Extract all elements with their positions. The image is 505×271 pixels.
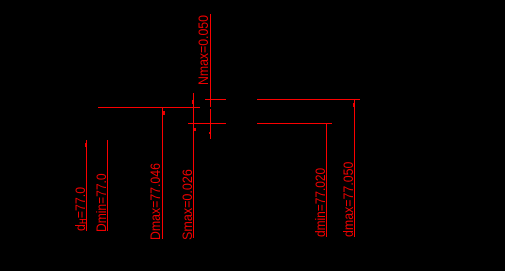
arrowhead on Dmax leader [163,111,165,115]
wire: leader line Dmax [162,107,163,239]
label Nmax=0.050 [196,15,211,85]
label Dmin=77.0 [94,173,109,232]
arrowhead on Smax leader bottom [194,128,195,131]
arrowhead on dH leader [85,143,87,147]
label dmin=77.020 [313,167,328,236]
wire: level line dmax right segment (H5) [257,99,360,100]
wire: level line dmin left segment (H3) [188,123,226,124]
wire: leader line dmin [326,123,327,237]
label Smax=0.026 [180,169,195,240]
label dH=77.0 [73,187,88,231]
arrowhead on dmax leader [353,103,355,107]
wire: leader line Dmin [107,140,108,232]
wire: leader line dH [86,140,87,231]
wire: level line dmax left segment (H2) [205,99,226,100]
label dmax=77.050 [341,162,356,237]
arrowhead on Nmax leader [209,132,210,135]
arrowhead on Smax leader top [192,100,193,104]
wire: level line Dmax (left horizontal H1) [98,107,200,108]
wire: leader line dmax [354,99,355,236]
wire: leader line Nmax upper segment [210,14,211,107]
wire: leader line Nmax lower segment [210,109,211,139]
label Dmax=77.046 [148,163,163,240]
wire: leader line Smax [193,93,194,238]
wire: level line dmin right segment (H4) [257,123,332,124]
